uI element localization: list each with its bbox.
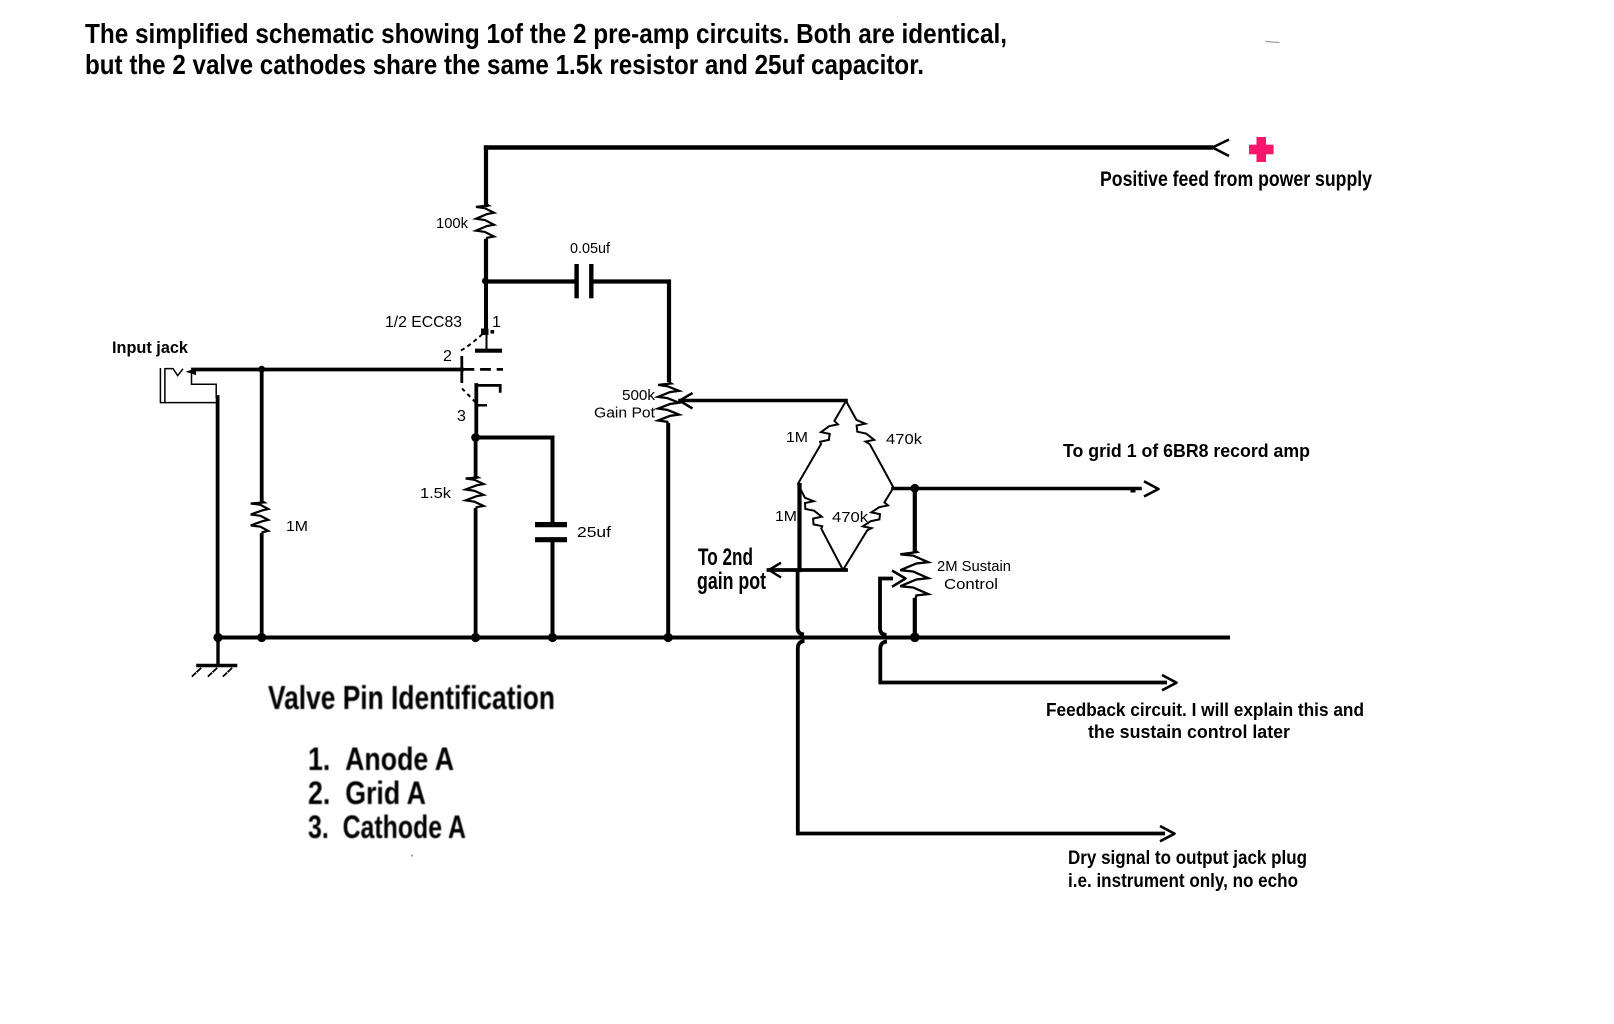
potentiometer 500k Gain Pot xyxy=(658,382,679,426)
wire ground bus xyxy=(216,636,1228,640)
wire anode lead xyxy=(484,281,489,349)
label To 2nd xyxy=(698,544,753,571)
svg-text:gain pot: gain pot xyxy=(697,568,766,595)
label title line 2 xyxy=(85,49,924,80)
wire diamond right node to out xyxy=(893,487,1140,491)
label To grid 1 of 6BR8 record amp xyxy=(1063,441,1310,461)
arrowhead to grid xyxy=(1144,481,1159,496)
svg-text:The simplified schematic showi: The simplified schematic showing 1of the… xyxy=(85,18,1007,49)
junction input / 1M xyxy=(258,366,265,373)
arrowhead feed (open, at right end) xyxy=(1213,140,1230,157)
ground symbol xyxy=(193,638,236,676)
valve cathode tick xyxy=(477,404,488,406)
label pin 1 xyxy=(492,314,501,331)
svg-text:1M: 1M xyxy=(775,508,797,525)
input jack tip arrow xyxy=(186,368,197,375)
label 2M Sustain xyxy=(937,558,1011,575)
label Control xyxy=(944,576,998,593)
valve pin 1 marker square xyxy=(481,329,494,336)
resistor 470k diamond lower-right xyxy=(843,488,894,571)
junction out node xyxy=(910,484,919,493)
wire dry signal lower xyxy=(798,641,1165,834)
arrowhead 2M wiper xyxy=(892,571,906,587)
svg-text:the sustain control later: the sustain control later xyxy=(1088,721,1290,742)
svg-text:To grid 1 of 6BR8 record amp: To grid 1 of 6BR8 record amp xyxy=(1063,441,1310,461)
stray mark top right xyxy=(1266,42,1279,43)
resistor 1M diamond lower-left xyxy=(798,484,843,570)
wire diamond bottom to left xyxy=(769,568,847,572)
svg-text:To 2nd: To 2nd xyxy=(698,544,753,571)
label pin 3 xyxy=(457,408,466,425)
wire diamond left node down xyxy=(797,485,801,570)
svg-text:0.05uf: 0.05uf xyxy=(570,240,611,257)
wire input signal xyxy=(193,368,462,372)
svg-text:1.5k: 1.5k xyxy=(420,485,452,502)
label 0.05uf xyxy=(570,240,611,257)
label pin list 3 xyxy=(308,809,466,845)
label Gain Pot xyxy=(594,405,656,422)
svg-text:1M: 1M xyxy=(286,518,308,535)
junction 25uf bus xyxy=(548,633,557,642)
label feedback line 2 xyxy=(1088,721,1290,742)
svg-text:Dry signal to output jack plug: Dry signal to output jack plug xyxy=(1068,848,1307,869)
svg-text:3. Cathode A: 3. Cathode A xyxy=(308,809,466,845)
valve anode plate xyxy=(475,349,502,353)
svg-text:25uf: 25uf xyxy=(577,524,612,541)
arrowhead feedback xyxy=(1162,675,1177,690)
wire feed to 100k xyxy=(484,148,488,206)
label 470k lower xyxy=(832,509,869,526)
wire 1M to ground bus xyxy=(260,535,264,638)
stray nub on out wire xyxy=(1131,488,1136,493)
label 1M lower xyxy=(775,508,797,525)
input jack body outline xyxy=(160,372,217,403)
capacitor 0.05uf xyxy=(577,264,592,298)
stray dot bottom xyxy=(411,854,413,856)
wire out node to 2M xyxy=(913,489,917,552)
svg-text:Gain Pot: Gain Pot xyxy=(594,405,656,422)
wire cathode to 25uf xyxy=(476,438,553,524)
svg-text:500k: 500k xyxy=(622,387,656,404)
wire 1.5k to bus xyxy=(474,510,478,638)
svg-text:i.e. instrument only, no echo: i.e. instrument only, no echo xyxy=(1068,871,1298,892)
svg-text:1M: 1M xyxy=(786,429,808,446)
label dry line 2 xyxy=(1068,871,1298,892)
resistor 1M diamond upper-left xyxy=(798,401,846,484)
potentiometer 2M Sustain Control xyxy=(900,550,928,601)
junction anode node xyxy=(482,278,489,285)
svg-text:Valve Pin Identification: Valve Pin Identification xyxy=(268,679,555,716)
arrowhead gain pot wiper xyxy=(680,393,693,409)
capacitor 25uf xyxy=(535,525,567,540)
wire 25uf to bus xyxy=(551,542,555,638)
label title line 1 xyxy=(85,18,1007,49)
svg-text:Positive feed from power suppl: Positive feed from power supply xyxy=(1100,167,1372,191)
junction jack bus xyxy=(213,633,222,642)
svg-text:3: 3 xyxy=(457,408,466,425)
label 1.5k xyxy=(420,485,452,502)
resistor 470k diamond upper-right xyxy=(846,401,894,488)
power symbol + (pink plus) xyxy=(1249,137,1274,162)
svg-text:Input jack: Input jack xyxy=(112,338,189,357)
junction 2M bus xyxy=(910,633,920,643)
resistor 100k xyxy=(476,204,494,242)
label feedback line 1 xyxy=(1046,699,1364,720)
wire input node down to 1M xyxy=(260,370,264,502)
wire jack ground lead xyxy=(216,397,220,638)
resistor 1.5k xyxy=(466,437,484,511)
svg-text:Control: Control xyxy=(944,576,998,593)
svg-text:Feedback circuit. I will expla: Feedback circuit. I will explain this an… xyxy=(1046,699,1364,720)
label 1M input xyxy=(286,518,308,535)
label 1/2 ECC83 xyxy=(385,314,462,331)
valve envelope arc lower xyxy=(462,389,478,405)
wire 0.05uf to gain pot top xyxy=(594,282,670,383)
arrowhead dry signal xyxy=(1160,826,1175,841)
wire positive feed horizontal xyxy=(486,145,1211,149)
wire to-2nd-gain-pot down upper xyxy=(798,570,804,635)
label pin 2 xyxy=(443,348,452,365)
input jack contact xyxy=(166,369,184,376)
svg-text:100k: 100k xyxy=(436,215,468,232)
svg-text:2: 2 xyxy=(443,348,452,365)
wire feedback lower xyxy=(880,642,1167,683)
svg-text:2. Grid A: 2. Grid A xyxy=(308,775,426,811)
svg-text:2M Sustain: 2M Sustain xyxy=(937,558,1011,575)
label Valve Pin Identification xyxy=(268,679,555,716)
wire wiper to diamond top xyxy=(680,399,846,403)
wire gain pot to bus xyxy=(666,425,670,638)
svg-text:1. Anode A: 1. Anode A xyxy=(308,741,454,777)
input jack plug sleeve xyxy=(160,368,165,403)
junction 1M bus xyxy=(257,633,266,642)
svg-text:1/2 ECC83: 1/2 ECC83 xyxy=(385,314,462,331)
svg-text:1: 1 xyxy=(492,314,501,331)
label 500k xyxy=(622,387,656,404)
label 470k upper xyxy=(886,431,923,448)
svg-text:470k: 470k xyxy=(832,509,869,526)
label gain pot xyxy=(697,568,766,595)
label 100k xyxy=(436,215,468,232)
resistor 1M input xyxy=(251,501,269,536)
svg-text:470k: 470k xyxy=(886,431,923,448)
label dry line 1 xyxy=(1068,848,1307,869)
wire cathode node xyxy=(471,433,480,442)
label pin list 1 xyxy=(308,741,454,777)
label Input jack xyxy=(112,338,189,357)
arrowhead to 2nd gain pot xyxy=(769,563,781,578)
junction gain pot bus xyxy=(664,633,673,642)
valve cathode xyxy=(476,385,500,437)
label pin list 2 xyxy=(308,775,426,811)
wire 2M wiper feedback upper xyxy=(880,579,893,636)
svg-text:but the 2 valve cathodes share: but the 2 valve cathodes share the same … xyxy=(85,49,924,80)
wire 100k to anode node xyxy=(484,241,488,281)
valve envelope arc upper xyxy=(461,333,484,351)
wire anode node to 0.05uf xyxy=(486,279,574,283)
valve grid (dashed) xyxy=(464,368,504,371)
label 25uf xyxy=(577,524,612,541)
valve grid terminal bar xyxy=(460,356,463,383)
label Positive feed from power supply xyxy=(1100,167,1372,191)
label 1M upper xyxy=(786,429,808,446)
junction 1.5k bus xyxy=(471,633,480,642)
wire 2M to bus xyxy=(913,600,917,638)
